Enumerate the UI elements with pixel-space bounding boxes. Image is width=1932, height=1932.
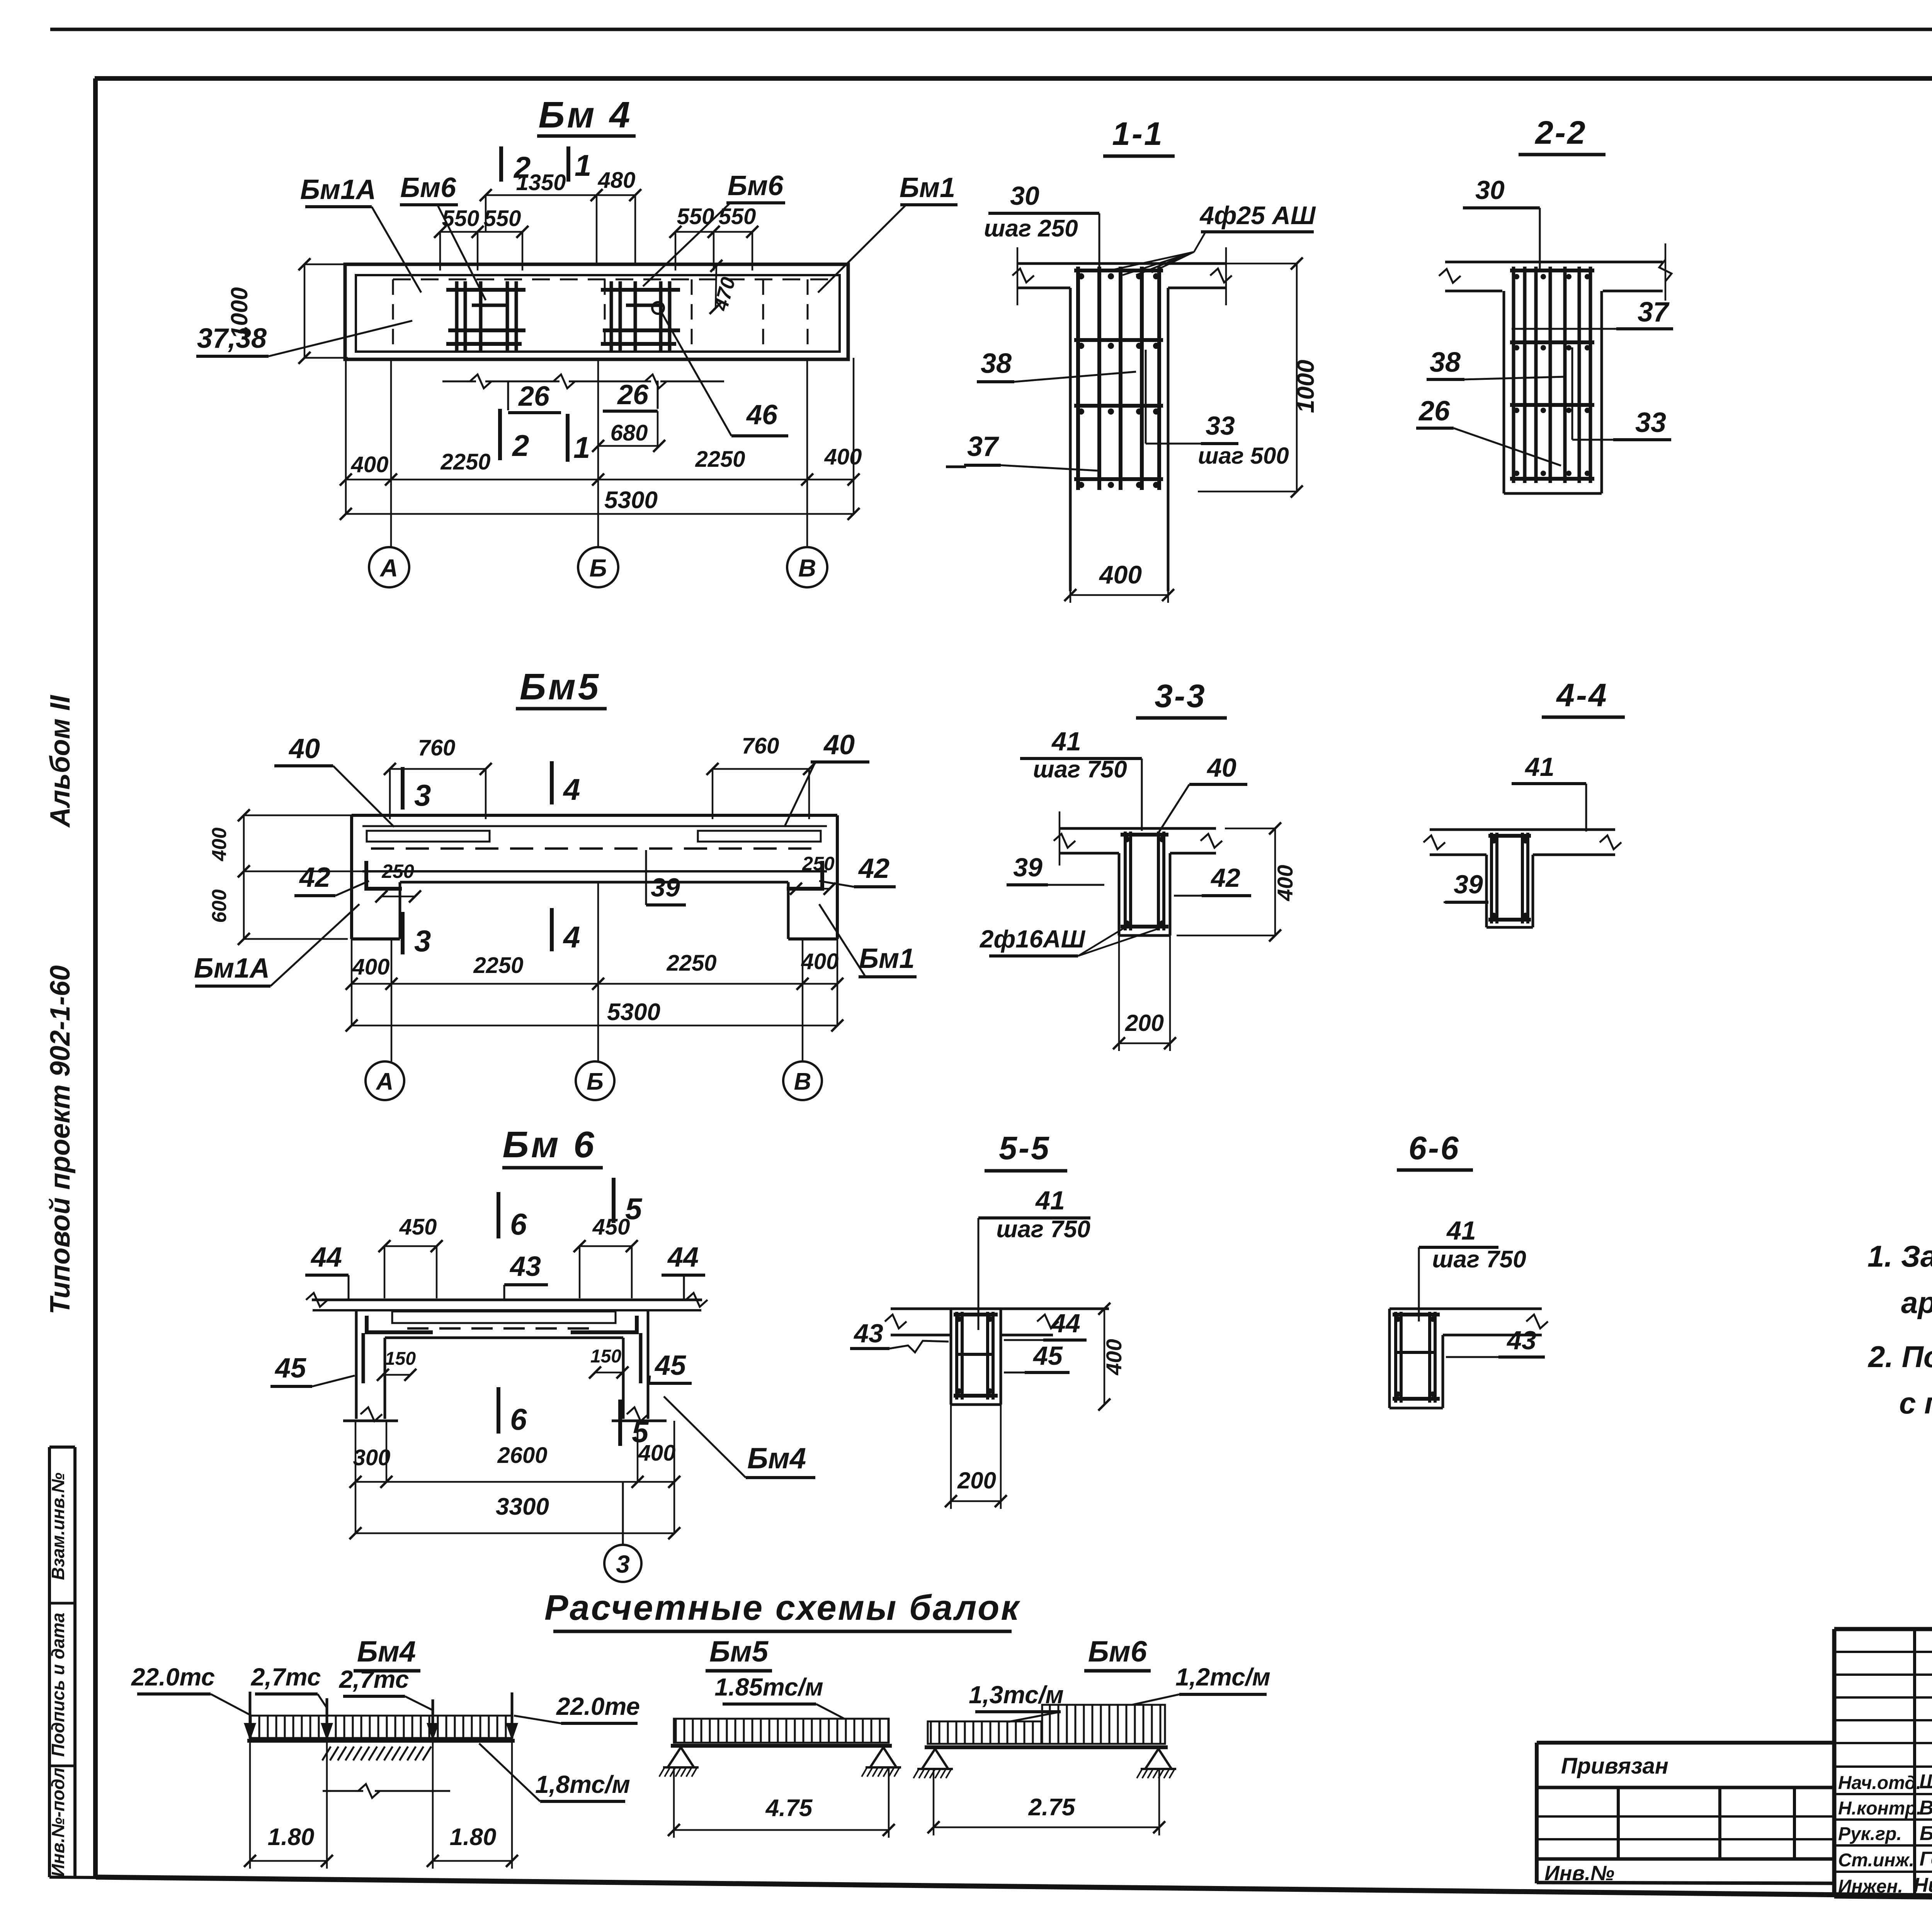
svg-text:1: 1 (573, 430, 590, 464)
svg-text:480: 480 (598, 168, 636, 193)
svg-text:6-6: 6-6 (1408, 1130, 1460, 1166)
svg-text:400: 400 (352, 954, 390, 980)
section 6-6 rebar cage (1394, 1312, 1397, 1403)
svg-text:Бм1: Бм1 (859, 943, 915, 974)
beam Бм5 outline (352, 814, 837, 817)
svg-text:Власенко: Власенко (1919, 1797, 1932, 1819)
svg-text:шаг 750: шаг 750 (1033, 756, 1127, 783)
scheme Бм5 distributed load strip (674, 1719, 889, 1743)
svg-text:41: 41 (1446, 1216, 1476, 1245)
svg-text:44: 44 (667, 1242, 699, 1273)
svg-text:41: 41 (1035, 1186, 1065, 1215)
svg-text:Бм1А: Бм1А (194, 953, 270, 984)
sheet outer top edge line (50, 28, 1932, 31)
svg-text:Бм4: Бм4 (747, 1442, 806, 1475)
section 4-4 rebar cage (1490, 833, 1493, 923)
svg-text:Подпись и дата: Подпись и дата (48, 1613, 68, 1757)
svg-text:4.75: 4.75 (765, 1795, 813, 1821)
weld marker circle on cage 2 (652, 302, 664, 314)
svg-text:1,8тс/м: 1,8тс/м (535, 1770, 630, 1798)
svg-text:шаг 750: шаг 750 (1432, 1246, 1526, 1273)
svg-text:1350: 1350 (516, 170, 566, 195)
svg-text:43: 43 (1506, 1326, 1536, 1355)
section mark 5 top (Бм6) (612, 1178, 616, 1223)
svg-text:2,7тс: 2,7тс (339, 1665, 409, 1693)
scheme Бм6 dimension 2.75 (933, 1770, 935, 1835)
svg-text:1-1: 1-1 (1112, 116, 1163, 152)
svg-text:2.75: 2.75 (1028, 1794, 1076, 1821)
dimension 1000 right of section 1-1 (1296, 264, 1298, 492)
svg-text:2250: 2250 (440, 449, 490, 474)
svg-text:200: 200 (1125, 1010, 1164, 1036)
svg-text:2: 2 (512, 429, 529, 463)
svg-text:Н.контр.: Н.контр. (1838, 1798, 1922, 1819)
svg-text:Расчетные схемы балок: Расчетные схемы балок (544, 1588, 1020, 1628)
svg-text:200: 200 (957, 1468, 996, 1493)
svg-text:2-2: 2-2 (1534, 114, 1587, 151)
svg-text:Бм5: Бм5 (709, 1635, 769, 1668)
svg-text:39: 39 (1454, 870, 1483, 899)
svg-text:Инв.№-подл: Инв.№-подл (48, 1768, 68, 1877)
svg-text:400: 400 (351, 452, 389, 477)
section mark 3 bottom (Бм5) (401, 912, 405, 954)
svg-text:33: 33 (1206, 411, 1235, 440)
svg-text:Шейко: Шейко (1919, 1770, 1932, 1793)
svg-text:В: В (798, 554, 816, 582)
svg-text:шаг 250: шаг 250 (984, 215, 1078, 242)
section 1-1 flange outline (1017, 262, 1226, 265)
left strip box (48, 1447, 51, 1877)
svg-text:Альбом II: Альбом II (45, 694, 76, 828)
axis circle В of Бм5 (783, 1061, 822, 1100)
beam Бм4 outer outline (345, 264, 848, 359)
scheme Бм4 ground hatching (322, 1747, 431, 1760)
svg-text:33: 33 (1635, 407, 1666, 438)
svg-text:А: А (379, 554, 398, 582)
svg-text:Бм1: Бм1 (900, 172, 955, 203)
svg-text:Рук.гр.: Рук.гр. (1838, 1824, 1902, 1844)
axis extension lines Бм5 (351, 939, 353, 1026)
svg-text:22.0тс: 22.0тс (131, 1663, 215, 1691)
section 1-1 rebar cage (1076, 267, 1080, 490)
dimension 470 inside Бм4 (716, 266, 716, 308)
svg-text:400: 400 (208, 828, 231, 862)
svg-text:2ф16АШ: 2ф16АШ (980, 925, 1086, 953)
svg-text:2. Поз. 30, 41 приварить в пер: 2. Поз. 30, 41 приварить в пересечениях (1867, 1340, 1932, 1374)
svg-text:4: 4 (563, 920, 580, 954)
svg-text:4-4: 4-4 (1556, 677, 1608, 713)
label 26 left under Бм4 (507, 381, 509, 410)
section 3-3 web outline (1118, 853, 1121, 935)
svg-text:450: 450 (592, 1214, 630, 1240)
svg-text:3: 3 (414, 778, 431, 812)
section mark 5 bottom (Бм6) (618, 1400, 622, 1446)
inner drawing frame left (93, 78, 98, 1877)
svg-text:550: 550 (484, 206, 521, 231)
svg-text:45: 45 (1032, 1341, 1063, 1371)
svg-text:6: 6 (510, 1402, 527, 1436)
svg-text:550: 550 (677, 204, 714, 229)
svg-text:шаг 750: шаг 750 (996, 1216, 1090, 1243)
title block signature grid (1832, 1629, 1837, 1896)
section mark 4 bottom (Бм5) (550, 908, 554, 951)
rebar cage 2 of Бм4 (610, 281, 613, 352)
bar 43 strip in Бм6 (392, 1311, 616, 1323)
svg-text:40: 40 (1206, 753, 1236, 782)
svg-text:с плоскими каркасами.: с плоскими каркасами. (1899, 1386, 1932, 1420)
section mark 2 bottom (498, 409, 502, 460)
section mark 2 top (499, 146, 503, 182)
svg-text:6: 6 (510, 1207, 527, 1241)
svg-text:400: 400 (1099, 560, 1142, 589)
svg-text:250: 250 (802, 853, 835, 874)
axis circle Б of Бм4 (578, 547, 618, 587)
beam Бм4 hidden dashed opening (393, 279, 831, 281)
svg-text:44: 44 (310, 1242, 342, 1273)
svg-text:43: 43 (509, 1251, 541, 1282)
svg-text:250: 250 (381, 861, 414, 882)
section mark 4 top (Бм5) (550, 761, 554, 804)
title block: Привязан box (1537, 1741, 1834, 1745)
svg-text:600: 600 (208, 889, 231, 923)
svg-text:Бм 4: Бм 4 (538, 94, 632, 136)
scheme Бм4 dims 1.80 1.80 (249, 1741, 251, 1869)
scheme Бм5 supports (668, 1747, 694, 1767)
svg-text:37: 37 (967, 431, 999, 462)
svg-text:400: 400 (824, 444, 862, 469)
svg-text:1,2тс/м: 1,2тс/м (1175, 1663, 1270, 1691)
scheme Бм6 distributed load strips (928, 1721, 1042, 1744)
svg-text:3: 3 (414, 924, 431, 958)
svg-text:2600: 2600 (497, 1443, 547, 1468)
svg-text:Инжен.: Инжен. (1838, 1876, 1903, 1897)
inner drawing frame top (95, 76, 1932, 81)
section 2-2 web outline (1503, 291, 1505, 493)
section 5-5 slab outline (891, 1308, 1109, 1310)
rebar cage 1 of Бм4 (455, 281, 459, 352)
svg-text:1.85тс/м: 1.85тс/м (714, 1673, 823, 1701)
svg-text:30: 30 (1010, 181, 1039, 211)
section mark 1 bottom (566, 414, 570, 462)
svg-text:2250: 2250 (695, 447, 745, 472)
svg-text:Нач.отд.: Нач.отд. (1838, 1773, 1921, 1793)
svg-text:2,7тс: 2,7тс (251, 1663, 321, 1691)
svg-text:В: В (794, 1068, 811, 1095)
stray dash right of Бм4 (946, 466, 966, 468)
svg-text:41: 41 (1051, 727, 1081, 756)
svg-text:39: 39 (1013, 853, 1043, 882)
break line under Бм4 with squiggles (442, 381, 476, 383)
axis extension lines Бм4 (345, 358, 347, 514)
section mark 6 bottom (Бм6) (497, 1387, 500, 1434)
scheme Бм4 distributed load strip (250, 1716, 512, 1738)
dimension 400/600 left of Бм5 (243, 815, 245, 871)
svg-text:22.0те: 22.0те (556, 1692, 640, 1720)
svg-text:Бм5: Бм5 (520, 666, 601, 707)
extension lines Бм6 dims (355, 1421, 357, 1533)
svg-text:1: 1 (575, 148, 591, 182)
svg-text:400: 400 (638, 1440, 676, 1466)
label 26 right under Бм4 (657, 381, 659, 409)
svg-text:5-5: 5-5 (999, 1130, 1050, 1166)
axis circle А of Бм4 (369, 547, 409, 587)
svg-text:39: 39 (651, 873, 680, 902)
dimension 1000 left of Бм4 (304, 264, 306, 358)
svg-text:Б: Б (589, 554, 607, 582)
scheme Бм4 break line (323, 1790, 363, 1792)
svg-text:30: 30 (1475, 175, 1505, 205)
svg-text:Бродская: Бродская (1920, 1822, 1932, 1845)
section 3-3 slab outline (1060, 827, 1216, 830)
svg-text:550: 550 (442, 206, 480, 231)
bar 42 hooks in Бм5 ends (366, 861, 402, 889)
beam Бм6 outline (312, 1299, 702, 1301)
section 2-2 rebar cage (1512, 267, 1515, 483)
svg-text:Ст.инж.: Ст.инж. (1838, 1850, 1914, 1871)
svg-text:Инв.№: Инв.№ (1544, 1862, 1614, 1885)
scheme Бм5 dimension 4.75 (673, 1768, 675, 1838)
svg-text:46: 46 (746, 400, 778, 430)
section mark 1 top (566, 146, 570, 182)
svg-text:42: 42 (1210, 863, 1240, 893)
svg-text:3-3: 3-3 (1155, 678, 1206, 714)
svg-text:3: 3 (616, 1550, 630, 1578)
svg-text:5300: 5300 (604, 487, 658, 514)
section 2-2 flange outline (1445, 261, 1663, 264)
svg-text:арматуры балок принят - 25мм.: арматуры балок принят - 25мм. (1901, 1286, 1932, 1320)
svg-text:300: 300 (353, 1445, 391, 1470)
svg-text:41: 41 (1524, 752, 1554, 782)
svg-text:760: 760 (418, 735, 456, 760)
beam Бм4 inner outline (356, 275, 840, 352)
svg-text:400: 400 (1102, 1339, 1126, 1375)
section 5-5 web outline (950, 1309, 952, 1405)
svg-text:40: 40 (823, 730, 855, 760)
svg-text:680: 680 (611, 420, 648, 446)
svg-text:А: А (376, 1068, 394, 1095)
inner drawing frame bottom (sloped) (96, 1877, 1932, 1903)
svg-text:5300: 5300 (607, 999, 660, 1026)
svg-text:26: 26 (518, 381, 550, 412)
dimension 400 right of 3-3 (1274, 828, 1276, 935)
svg-text:45: 45 (274, 1353, 306, 1384)
svg-text:38: 38 (981, 348, 1012, 379)
section 4-4 web outline (1485, 855, 1488, 927)
svg-text:4: 4 (563, 772, 580, 806)
svg-text:150: 150 (590, 1346, 621, 1367)
svg-text:Бм6: Бм6 (400, 172, 456, 203)
svg-text:Б: Б (587, 1068, 604, 1095)
svg-text:Никитенко: Никитенко (1913, 1874, 1932, 1896)
section mark 6 top (Бм6) (497, 1192, 500, 1238)
svg-text:шаг 500: шаг 500 (1198, 443, 1289, 469)
axis circle В of Бм4 (787, 547, 827, 587)
svg-text:45: 45 (654, 1350, 686, 1381)
svg-text:1.80: 1.80 (450, 1824, 497, 1850)
svg-text:40: 40 (288, 733, 320, 764)
svg-text:43: 43 (853, 1319, 883, 1348)
section 5-5 rebar cage (955, 1312, 958, 1400)
bar 44 hooks in Бм6 (367, 1316, 433, 1332)
svg-text:Привязан: Привязан (1561, 1753, 1668, 1779)
svg-text:Бм6: Бм6 (728, 170, 784, 201)
axis circle А of Бм5 (366, 1061, 404, 1100)
scheme Бм6 supports (922, 1749, 948, 1769)
section 1-1 web outline (1069, 288, 1072, 591)
bar 40 strips in Бм5 slab (367, 831, 490, 842)
svg-text:Типовой проект 902-1-60: Типовой проект 902-1-60 (45, 965, 76, 1315)
svg-text:Взам.инв.№: Взам.инв.№ (48, 1473, 68, 1580)
svg-text:26: 26 (1418, 396, 1450, 427)
svg-text:400: 400 (1273, 865, 1297, 901)
svg-text:1. Защитный слой бетона для ра: 1. Защитный слой бетона для рабочей (1867, 1239, 1932, 1273)
section mark 3 top (Бм5) (401, 767, 405, 810)
svg-text:Бм6: Бм6 (1088, 1635, 1147, 1668)
svg-text:Бм1А: Бм1А (300, 174, 376, 205)
svg-text:2250: 2250 (473, 953, 523, 978)
svg-text:42: 42 (299, 862, 330, 893)
svg-text:2250: 2250 (666, 951, 716, 976)
svg-text:3300: 3300 (496, 1493, 549, 1520)
svg-text:760: 760 (742, 733, 779, 759)
svg-text:42: 42 (858, 853, 889, 884)
svg-text:Бм4: Бм4 (357, 1635, 416, 1668)
svg-text:38: 38 (1430, 347, 1461, 378)
svg-text:Бм 6: Бм 6 (502, 1124, 596, 1165)
svg-text:150: 150 (385, 1349, 416, 1369)
svg-text:4ф25 АШ: 4ф25 АШ (1199, 201, 1316, 230)
svg-text:37: 37 (1638, 297, 1670, 328)
svg-text:Геделева: Геделева (1920, 1848, 1932, 1870)
scheme Бм4 point load arrows (249, 1692, 252, 1738)
axis circle Б of Бм5 (576, 1061, 614, 1100)
svg-text:1000: 1000 (1293, 360, 1319, 413)
svg-text:1.80: 1.80 (268, 1824, 315, 1850)
dashed bar 39 in Бм5 (371, 847, 819, 850)
svg-text:400: 400 (801, 949, 839, 974)
section 4-4 slab outline (1430, 828, 1615, 831)
dimension 200 of 5-5 (950, 1405, 952, 1509)
section 6-6 outline (1389, 1308, 1542, 1310)
dimension 400 right of 5-5 (1104, 1309, 1105, 1405)
svg-text:26: 26 (617, 379, 649, 410)
svg-text:37,38: 37,38 (197, 323, 267, 354)
svg-text:44: 44 (1050, 1309, 1080, 1338)
svg-text:450: 450 (399, 1214, 437, 1240)
section 3-3 rebar cage (1124, 832, 1127, 930)
node circle 3 of Бм6 (622, 1482, 624, 1545)
